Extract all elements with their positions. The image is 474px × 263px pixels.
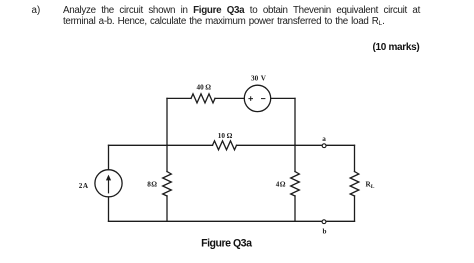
resistor R 10ohm zigzag	[213, 141, 237, 150]
svg-text:Figure Q3a: Figure Q3a	[201, 237, 252, 249]
plus sign inside 30V	[249, 97, 253, 101]
current source arrow head	[106, 175, 111, 181]
svg-text:30V: 30V	[251, 75, 267, 83]
svg-text:RL: RL	[366, 181, 375, 191]
voltage source 30V circle	[244, 85, 270, 111]
svg-text:2A: 2A	[79, 182, 89, 190]
minus sign inside 30V	[262, 98, 265, 100]
wire right vertical upper (top to middle)	[294, 98, 296, 145]
resistor R 8ohm zigzag	[163, 172, 172, 197]
current source 2A circle	[95, 170, 122, 197]
terminal a	[322, 144, 326, 148]
wire middle horizontal right segment to node a and RL branch	[237, 144, 355, 146]
wire resistor to 30V source	[215, 97, 244, 99]
svg-text:40Ω: 40Ω	[197, 83, 212, 91]
resistor RL zigzag	[350, 172, 359, 197]
resistor R 40ohm zigzag	[191, 94, 215, 103]
wire left vertical (middle wire to 8ohm)	[166, 145, 168, 171]
wire RL branch upper	[354, 145, 356, 171]
wire left vertical upper (top wire to middle wire)	[166, 98, 168, 145]
wire right vertical (middle wire to 4ohm)	[294, 145, 296, 171]
wire 8ohm to bottom	[166, 196, 168, 221]
wire 4ohm to bottom	[294, 196, 296, 221]
svg-text:10Ω: 10Ω	[218, 132, 233, 140]
wire left branch upper (middle wire to 2A source)	[108, 145, 110, 169]
wire top-left horizontal	[167, 97, 191, 99]
wire bottom horizontal	[109, 220, 355, 222]
svg-text:b: b	[323, 227, 327, 235]
svg-text:4Ω: 4Ω	[276, 180, 286, 188]
resistor R 4ohm zigzag	[291, 172, 300, 197]
svg-text:8Ω: 8Ω	[147, 180, 157, 188]
wire RL to bottom	[354, 196, 356, 221]
terminal b	[322, 220, 326, 224]
svg-text:a: a	[322, 135, 326, 143]
wire middle horizontal left segment	[109, 144, 213, 146]
current source arrow shaft	[108, 179, 110, 193]
wire 2A source to bottom	[108, 197, 110, 221]
wire 30V source to top-right corner	[271, 97, 295, 99]
